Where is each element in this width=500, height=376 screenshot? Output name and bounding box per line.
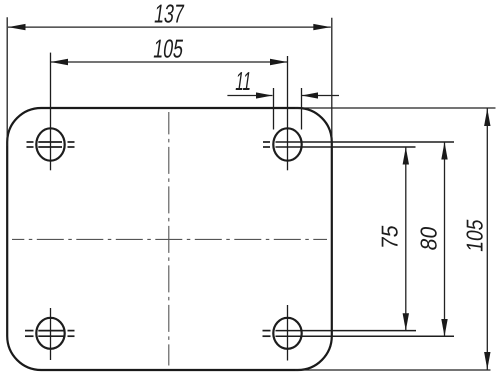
- plate outline: [7, 108, 332, 370]
- svg-text:105: 105: [461, 217, 487, 253]
- hole bottom-right: [263, 305, 455, 361]
- hole top-left: [27, 53, 75, 171]
- svg-text:105: 105: [152, 34, 186, 64]
- hole bottom-left: [25, 308, 75, 360]
- svg-text:80: 80: [416, 225, 442, 252]
- horizontal centerline: [12, 238, 327, 240]
- dimension 137: [7, 17, 332, 146]
- dimension 80: [441, 142, 447, 337]
- dimension 11: [227, 92, 339, 98]
- svg-text:75: 75: [377, 223, 403, 250]
- vertical centerline: [168, 112, 170, 366]
- svg-text:137: 137: [152, 0, 186, 28]
- dimension 105 top: [51, 59, 288, 65]
- hole top-right: [263, 56, 454, 170]
- dimension 75: [403, 147, 409, 331]
- dimension 105 right: [295, 108, 496, 370]
